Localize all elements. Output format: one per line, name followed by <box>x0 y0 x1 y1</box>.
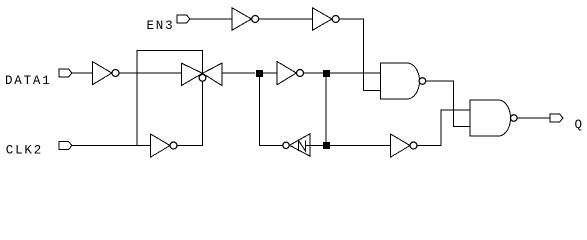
input pin CLK2 <box>59 142 72 150</box>
input pin EN3 <box>177 15 190 23</box>
junction <box>256 70 263 77</box>
nand gate U6 <box>381 63 426 99</box>
wire <box>72 145 151 147</box>
wire <box>329 145 391 147</box>
wire <box>222 72 255 74</box>
wire <box>303 72 381 74</box>
wire <box>325 76 327 146</box>
wire <box>339 19 380 91</box>
svg-text:Q: Q <box>575 118 584 132</box>
wire <box>119 72 182 74</box>
inverter U3 <box>92 62 119 85</box>
input pin DATA1 <box>59 69 72 77</box>
svg-text:EN3: EN3 <box>147 19 175 33</box>
wire <box>263 72 277 74</box>
nand gate U10 <box>470 100 517 136</box>
inverter U2 <box>313 8 340 30</box>
wire <box>177 81 203 145</box>
inverter U9 <box>391 134 418 157</box>
wire <box>259 18 313 20</box>
inverter U7 <box>151 134 178 157</box>
svg-text:CLK2: CLK2 <box>6 144 43 158</box>
wire <box>260 73 283 146</box>
inverter U8 weak feedback N <box>283 134 310 156</box>
wire <box>426 81 470 127</box>
wire <box>310 145 323 147</box>
wire <box>72 72 92 74</box>
wire <box>517 117 550 119</box>
wire <box>417 110 470 146</box>
transmission gate U4 <box>182 63 222 85</box>
junction <box>323 142 330 149</box>
inverter U1 <box>232 8 259 30</box>
junction <box>323 70 330 77</box>
svg-text:DATA1: DATA1 <box>5 74 52 88</box>
output pin Q <box>550 114 563 122</box>
inverter U5 <box>277 62 304 85</box>
wire <box>190 18 232 20</box>
feedback wire <box>137 51 203 146</box>
